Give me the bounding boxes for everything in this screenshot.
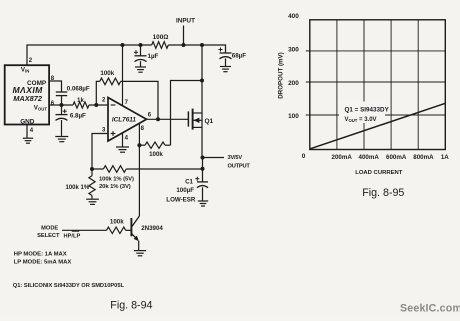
svg-text:400mA: 400mA [359,154,380,161]
svg-text:0.068µF: 0.068µF [67,86,90,93]
svg-text:400: 400 [288,13,299,20]
svg-text:100k 1% (5V): 100k 1% (5V) [99,177,134,183]
svg-text:DROPOUT (mV): DROPOUT (mV) [277,52,284,98]
svg-text:Q1 = SI9433DY: Q1 = SI9433DY [345,107,390,114]
svg-text:SeekIC.com: SeekIC.com [400,303,460,315]
svg-text:MODE: MODE [41,226,58,232]
svg-text:20k 1% (3V): 20k 1% (3V) [99,184,131,190]
svg-text:68µF: 68µF [232,53,246,60]
svg-text:VOUT = 3.0V: VOUT = 3.0V [345,117,377,123]
svg-text:300: 300 [288,47,299,54]
svg-text:VIN: VIN [21,66,29,73]
svg-text:1µF: 1µF [148,53,159,60]
svg-text:HP MODE: 1A MAX: HP MODE: 1A MAX [14,252,67,258]
svg-text:100Ω: 100Ω [153,34,169,41]
svg-text:6.8µF: 6.8µF [70,113,86,120]
svg-text:100: 100 [288,113,299,120]
svg-text:SELECT: SELECT [37,233,60,239]
svg-text:Fig. 8-94: Fig. 8-94 [110,300,152,312]
svg-text:LP MODE: 5mA MAX: LP MODE: 5mA MAX [14,259,72,265]
svg-text:1A: 1A [441,154,449,161]
svg-text:0: 0 [302,153,306,160]
svg-text:C1: C1 [185,179,193,186]
svg-text:LOW-ESR: LOW-ESR [166,196,196,203]
svg-text:LOAD CURRENT: LOAD CURRENT [355,170,403,176]
svg-text:100k: 100k [100,70,114,77]
svg-text:Fig. 8-95: Fig. 8-95 [362,187,404,199]
svg-text:VOUT: VOUT [34,104,48,111]
svg-text:200: 200 [288,80,299,87]
svg-text:Q1: Q1 [205,118,214,125]
svg-text:MAX872: MAX872 [13,94,43,103]
svg-text:GND: GND [20,119,35,126]
svg-text:1k: 1k [77,97,84,104]
svg-text:Q1: SILICONIX Si9433DY OR SMD1: Q1: SILICONIX Si9433DY OR SMD10P05L [13,283,125,289]
svg-text:ICL7611: ICL7611 [112,117,136,124]
svg-text:2N3904: 2N3904 [141,225,163,232]
svg-text:600mA: 600mA [386,154,407,161]
svg-text:800mA: 800mA [413,154,434,161]
svg-text:100µF: 100µF [176,187,194,194]
svg-text:INPUT: INPUT [176,18,195,25]
svg-text:100k: 100k [110,219,124,226]
svg-text:100k 1%: 100k 1% [66,185,90,191]
svg-text:200mA: 200mA [332,154,353,161]
svg-text:HP/LP: HP/LP [64,233,81,239]
svg-text:OUTPUT: OUTPUT [228,164,251,170]
svg-text:3V/5V: 3V/5V [228,155,243,161]
svg-text:100k: 100k [149,151,163,158]
